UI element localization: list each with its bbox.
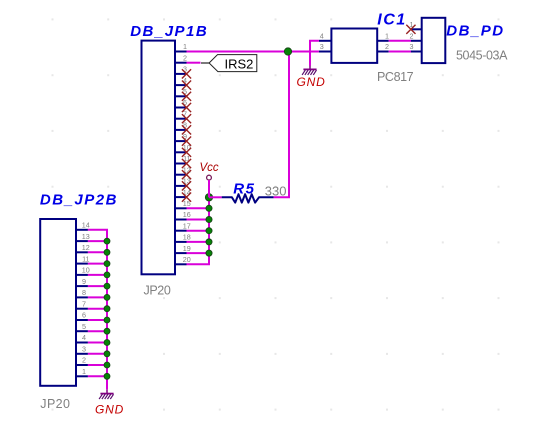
junction dots on JP1B bus <box>205 194 212 257</box>
svg-text:2: 2 <box>183 53 187 62</box>
connector JP1B body <box>142 41 176 275</box>
wire vertical GND bus of JP2B <box>106 230 108 389</box>
wire IC1 pin1 to DB_PD pin2 <box>389 40 411 42</box>
svg-text:4: 4 <box>82 333 86 342</box>
wires JP1B pins 15-20 to GND bus <box>187 208 211 264</box>
svg-text:1: 1 <box>385 31 389 40</box>
wire R5 right lead to vertical riser <box>274 52 289 198</box>
wire IC1 pin2 to DB_PD pin3 <box>389 51 411 53</box>
wire junction to R5 left lead <box>209 196 222 198</box>
ground symbol near IC1 <box>302 66 317 75</box>
svg-text:R5: R5 <box>233 181 255 198</box>
svg-text:5: 5 <box>82 322 86 331</box>
connector DB_PD body <box>422 18 446 63</box>
svg-text:11: 11 <box>82 254 89 263</box>
svg-text:13: 13 <box>82 232 90 241</box>
svg-text:9: 9 <box>82 277 86 286</box>
DB_PD pin numbers <box>410 20 414 51</box>
wires JP2B pins to GND bus <box>88 230 108 376</box>
svg-text:1: 1 <box>82 367 86 376</box>
svg-text:PC817: PC817 <box>377 70 414 84</box>
svg-text:10: 10 <box>82 266 90 275</box>
net label IRS2 flag <box>201 55 257 72</box>
connector JP2B body <box>40 219 76 386</box>
no-connect X mark on DB_PD pin1 <box>406 25 415 34</box>
svg-text:DB_PD: DB_PD <box>446 23 504 40</box>
svg-text:12: 12 <box>82 243 90 252</box>
svg-text:Vcc: Vcc <box>200 162 219 174</box>
junction dots on JP2B bus pins 1-13 <box>104 238 110 379</box>
wire vertical bus JP1B pins 14-20 <box>208 197 210 264</box>
svg-text:2: 2 <box>410 31 414 40</box>
connector JP2B pins 1-14 <box>76 230 88 376</box>
svg-text:8: 8 <box>82 288 86 297</box>
svg-text:3: 3 <box>320 42 324 51</box>
wire IC1 pin4 to GND <box>310 41 319 66</box>
svg-text:17: 17 <box>183 221 191 230</box>
svg-text:18: 18 <box>183 233 191 242</box>
connector JP1B pins 1-20 <box>175 52 187 265</box>
IC1 pin numbers <box>320 31 389 51</box>
svg-text:IC1: IC1 <box>377 12 406 29</box>
svg-text:GND: GND <box>95 403 124 417</box>
svg-text:3: 3 <box>82 345 86 354</box>
svg-text:1: 1 <box>183 42 187 51</box>
svg-text:6: 6 <box>82 311 86 320</box>
svg-text:20: 20 <box>183 255 191 264</box>
svg-text:3: 3 <box>410 42 414 51</box>
svg-text:5045-03A: 5045-03A <box>456 49 508 63</box>
svg-text:4: 4 <box>320 31 324 40</box>
svg-text:19: 19 <box>183 244 191 253</box>
optocoupler IC1 body <box>331 29 377 63</box>
svg-text:14: 14 <box>82 221 90 230</box>
junction dot at IC1 net <box>284 48 291 55</box>
connector JP1B pin numbers 1-20 <box>183 42 191 264</box>
svg-text:16: 16 <box>183 210 191 219</box>
svg-text:2: 2 <box>82 356 86 365</box>
no-connect X marks on JP1B pins 3-14 <box>182 69 191 201</box>
svg-text:DB_JP1B: DB_JP1B <box>130 23 208 40</box>
power port Vcc circle <box>207 175 212 180</box>
DB_PD pins 1-3 <box>411 29 422 51</box>
svg-text:GND: GND <box>297 75 326 89</box>
svg-text:IRS2: IRS2 <box>225 57 254 72</box>
IC1 pins 4,3 left and 1,2 right <box>319 41 389 52</box>
svg-text:DB_JP2B: DB_JP2B <box>40 191 118 208</box>
svg-text:JP20: JP20 <box>40 397 70 411</box>
ground symbol below JP2B <box>99 389 114 399</box>
connector JP2B pin numbers 1-14 <box>82 221 90 377</box>
svg-text:JP20: JP20 <box>144 284 171 298</box>
resistor R5 <box>222 194 274 202</box>
wire Vcc to junction <box>208 180 210 197</box>
svg-text:2: 2 <box>385 42 389 51</box>
wire JP1B pin2 to net label IRS2 <box>187 62 201 64</box>
svg-text:7: 7 <box>82 299 86 308</box>
wire JP1B pin1 to IC1 pin3 (net to optocoupler) <box>187 51 319 53</box>
